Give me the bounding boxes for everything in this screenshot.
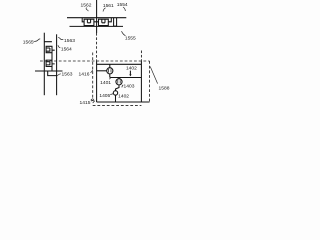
svg-text:1563: 1563: [64, 38, 75, 44]
svg-text:1403: 1403: [124, 83, 135, 89]
svg-text:1402: 1402: [126, 65, 137, 71]
svg-text:1564: 1564: [61, 46, 72, 52]
svg-text:1562: 1562: [81, 3, 92, 9]
svg-text:1415: 1415: [80, 100, 91, 106]
svg-text:1563: 1563: [62, 72, 73, 78]
svg-text:1416: 1416: [79, 72, 90, 78]
svg-text:1405: 1405: [99, 93, 110, 99]
svg-text:1402: 1402: [118, 93, 129, 99]
svg-text:1554: 1554: [117, 2, 128, 8]
svg-text:1561: 1561: [103, 3, 114, 9]
svg-text:1401: 1401: [100, 80, 111, 86]
svg-text:1588: 1588: [159, 86, 170, 92]
svg-text:1565: 1565: [23, 40, 34, 46]
svg-text:1555: 1555: [125, 35, 136, 41]
